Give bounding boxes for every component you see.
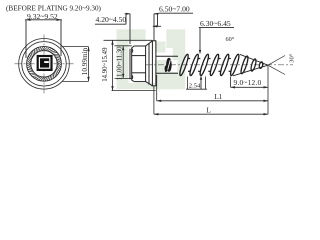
head bottom-left slope xyxy=(132,80,135,81)
dim 9.0~12.0 lines xyxy=(231,77,269,88)
serration inner circle xyxy=(31,51,57,77)
dim 9.32~9.52 line xyxy=(25,20,62,58)
svg-text:10.99min: 10.99min xyxy=(81,47,89,75)
dim 9.32~9.52 arrows xyxy=(26,19,61,21)
serration outer circle xyxy=(27,46,62,81)
dim 4.20~4.50 lines xyxy=(95,14,159,44)
head left face double line xyxy=(129,49,131,79)
svg-text:9.0~12.0: 9.0~12.0 xyxy=(234,78,262,87)
shank cylinder top xyxy=(156,55,178,57)
dim 6.30~6.45 leader+arrows xyxy=(199,28,234,89)
chamfer bottom xyxy=(146,82,153,86)
tip extension line xyxy=(267,66,269,114)
svg-text:30°: 30° xyxy=(289,53,296,63)
serration ticks xyxy=(27,47,61,81)
stamp logo on head xyxy=(37,55,53,71)
shank cylinder bottom xyxy=(156,72,178,74)
svg-text:4.20~4.50: 4.20~4.50 xyxy=(96,15,127,24)
point taper xyxy=(233,54,268,75)
dim line 14.90 xyxy=(104,40,156,90)
hex outline bottom xyxy=(134,81,145,83)
svg-text:14.90~15.49: 14.90~15.49 xyxy=(102,47,109,82)
hex division lower xyxy=(132,72,146,74)
metal washer line xyxy=(148,44,150,85)
dim L1 lines xyxy=(157,75,268,101)
dim 10.99min xyxy=(62,47,89,82)
dim line 11.00 xyxy=(115,46,132,79)
hex corner arcs xyxy=(132,49,133,53)
hex right face xyxy=(145,46,147,82)
svg-text:2.54: 2.54 xyxy=(189,82,201,89)
svg-text:6.30~6.45: 6.30~6.45 xyxy=(200,19,231,28)
30 degree V lines xyxy=(268,56,285,75)
hex outline top xyxy=(134,45,145,47)
watermark logo background xyxy=(117,29,186,89)
svg-text:60°: 60° xyxy=(226,36,235,43)
svg-text:L: L xyxy=(207,106,211,114)
washer slab xyxy=(152,41,156,86)
dim 2.54 lines xyxy=(186,77,207,90)
metal washer circle xyxy=(22,42,66,86)
crosshair centerlines xyxy=(15,35,74,94)
screw axis centerline xyxy=(146,64,293,66)
thread loops xyxy=(178,54,263,77)
hex division upper xyxy=(132,55,146,57)
screw head side view xyxy=(130,41,178,86)
svg-text:L1: L1 xyxy=(215,93,223,101)
svg-text:6.50~7.00: 6.50~7.00 xyxy=(159,5,190,14)
outer rubber washer circle xyxy=(19,39,70,90)
first thread dark blob xyxy=(165,58,172,72)
dim L lines xyxy=(154,86,268,114)
chamfer top xyxy=(146,41,153,46)
dim 6.50~7.00 leader xyxy=(153,13,193,26)
head top-left slope xyxy=(132,46,135,48)
head-on view circles xyxy=(19,39,70,90)
